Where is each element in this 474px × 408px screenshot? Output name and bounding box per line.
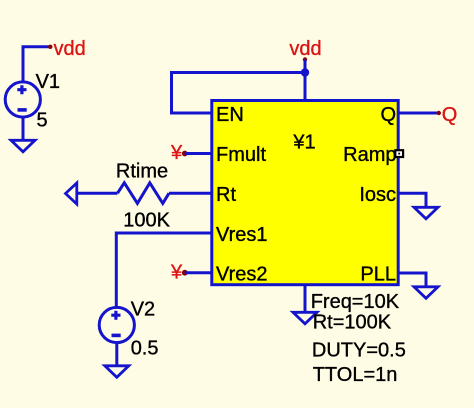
svg-text:Q: Q [380,104,396,126]
wire PLL to ground [399,273,427,287]
svg-text:V2: V2 [131,299,155,321]
wire Iosc to ground [399,193,427,207]
net label Y (Fmult) [170,142,211,164]
wire left of resistor [77,192,118,195]
svg-text:PLL: PLL [360,264,396,286]
svg-text:vdd: vdd [54,38,86,60]
wire Fmult stub [185,152,211,155]
vdd anchor dot [303,57,307,61]
svg-text:DUTY=0.5: DUTY=0.5 [312,340,406,362]
junction [301,68,309,76]
V2 circle [99,307,134,342]
ground (Iosc) [414,207,438,219]
port arrow (left, floating) [66,183,77,204]
wire V2 bottom [115,343,118,366]
svg-text:vdd: vdd [289,38,321,60]
svg-text:Rt=100K: Rt=100K [313,312,392,334]
svg-text:0.5: 0.5 [131,338,159,360]
ground (PLL) [414,287,438,299]
port marker Ramp [394,149,404,158]
IC U1 (yellow block) [212,101,398,286]
wire Vres1 to V2 [116,233,211,308]
svg-text:EN: EN [216,104,244,126]
svg-text:Vres2: Vres2 [216,264,268,286]
svg-text:Rtime: Rtime [116,161,168,183]
wire EN loop [172,73,306,114]
node vdd (left) anchor dot [48,45,52,49]
resistor Rtime [66,161,212,232]
svg-text:Freq=10K: Freq=10K [311,291,400,313]
svg-text:5: 5 [37,110,48,132]
wire Vres2 stub [185,271,211,274]
net label Y (Vres2) [170,261,211,283]
V1 plus [17,85,26,94]
svg-text:Ramp: Ramp [343,144,396,166]
svg-text:Rt: Rt [216,184,236,206]
wire Q output [399,112,439,115]
svg-text:Vres1: Vres1 [216,224,268,246]
svg-text:¥1: ¥1 [292,131,315,153]
wire V1 bottom [22,117,25,140]
wire V1 top to vdd label [23,47,49,82]
voltage source V1 [5,38,86,152]
svg-text:¥: ¥ [170,261,183,283]
wire resistor to Rt pin [169,192,211,195]
svg-text:V1: V1 [36,71,60,93]
ground (V1) [11,140,35,152]
V2 plus [111,311,120,320]
svg-text:¥: ¥ [170,142,183,164]
resistor zigzag [118,183,170,204]
node Q anchor dot [437,111,441,115]
wire vdd to box top [304,60,307,101]
node vdd (top) [172,38,322,113]
ground (bottom) [293,312,317,324]
ground (V2) [105,366,129,378]
wire bottom pin to ground [304,285,307,312]
V2 minus [112,334,121,338]
svg-text:TTOL=1n: TTOL=1n [313,364,398,386]
svg-text:100K: 100K [123,210,170,232]
svg-text:Iosc: Iosc [359,184,396,206]
voltage source V2 [99,299,158,378]
V1 circle [5,82,40,117]
svg-text:Q: Q [442,104,458,126]
V1 minus [18,108,27,112]
svg-text:Fmult: Fmult [216,144,266,166]
